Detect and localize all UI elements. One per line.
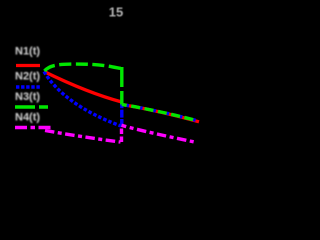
title "15" <box>109 5 123 20</box>
svg-text:N3(t): N3(t) <box>15 91 40 103</box>
curve blue dotted post-jump <box>122 105 198 121</box>
legend label 1 <box>15 46 40 58</box>
legend sample blue <box>16 85 40 89</box>
svg-text:N2(t): N2(t) <box>15 71 40 83</box>
legend label 4 <box>15 112 40 124</box>
curve red solid <box>44 72 199 122</box>
legend label 2 <box>15 71 40 83</box>
legend sample red <box>16 64 40 67</box>
curve green dashed pre-jump <box>45 64 122 71</box>
legend sample green <box>15 105 48 109</box>
curve blue dotted pre-jump <box>44 72 121 127</box>
curve green drop at x=122 <box>120 67 123 105</box>
legend sample magenta <box>15 126 51 129</box>
curve blue jump up at x=122 <box>120 104 123 128</box>
legend label 3 <box>15 91 40 103</box>
curve magenta dash-dot pre-jump <box>45 131 121 143</box>
curve magenta dash-dot post-jump <box>122 125 198 142</box>
curve green dashed post-jump <box>122 105 198 121</box>
svg-text:N4(t): N4(t) <box>15 112 40 124</box>
svg-text:N1(t): N1(t) <box>15 46 40 58</box>
svg-text:15: 15 <box>109 5 123 20</box>
curve magenta jump up at x=122 <box>120 127 123 142</box>
